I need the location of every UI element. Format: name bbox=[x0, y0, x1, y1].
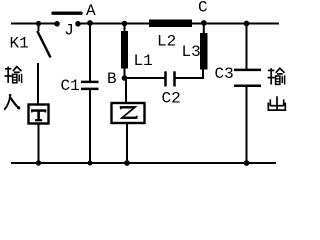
label shu (input) character 1 bbox=[5, 67, 22, 83]
junction Z branch at bottom rail bbox=[124, 160, 130, 166]
junction C3 branch top bbox=[244, 21, 250, 27]
label L3 bbox=[182, 43, 201, 61]
svg-text:L1: L1 bbox=[134, 52, 153, 70]
inductor L3 bbox=[200, 24, 208, 70]
wire node B to C2 bbox=[125, 77, 165, 79]
wire C2 to L3 bottom bbox=[176, 70, 204, 79]
capacitor C1 bbox=[81, 82, 99, 89]
svg-text:A: A bbox=[86, 2, 96, 20]
svg-text:C1: C1 bbox=[61, 77, 80, 95]
wire node A down to C1 bbox=[89, 24, 91, 82]
capacitor C2 bbox=[166, 71, 175, 86]
inductor L1 bbox=[121, 24, 128, 79]
wire C1 to bottom rail bbox=[89, 90, 91, 163]
svg-text:J: J bbox=[64, 21, 74, 39]
label ru (input) character 2 bbox=[4, 95, 20, 110]
wire K1 lower lead to fuse box bbox=[37, 63, 39, 104]
label C3 bbox=[215, 65, 234, 83]
svg-text:B: B bbox=[107, 70, 117, 88]
capacitor C3 bbox=[234, 70, 261, 86]
svg-text:C3: C3 bbox=[215, 65, 234, 83]
label node C bbox=[198, 0, 208, 16]
label L1 bbox=[134, 52, 153, 70]
node C junction dot bbox=[201, 20, 207, 26]
switch J left terminal dot bbox=[54, 21, 60, 27]
svg-text:L2: L2 bbox=[157, 33, 176, 51]
svg-text:K1: K1 bbox=[10, 35, 29, 53]
switch J right terminal dot bbox=[75, 21, 81, 27]
switch J contact bar bbox=[53, 11, 81, 14]
wire top rail left segment bbox=[11, 23, 56, 25]
inductor L2 bbox=[149, 20, 192, 28]
label L2 bbox=[157, 33, 176, 51]
svg-text:C2: C2 bbox=[162, 90, 181, 108]
label J bbox=[64, 21, 74, 39]
node A junction dot bbox=[87, 20, 93, 26]
wire C3 to bottom rail bbox=[246, 87, 248, 163]
label C2 bbox=[162, 90, 181, 108]
svg-text:L3: L3 bbox=[182, 43, 201, 61]
label C1 bbox=[61, 77, 80, 95]
label node A bbox=[86, 2, 96, 20]
wire Z box to bottom rail bbox=[126, 123, 128, 163]
wire top rail right segment A-to-right-end bbox=[78, 23, 279, 25]
wire bottom rail bbox=[11, 162, 276, 164]
fuse box T bbox=[29, 105, 49, 124]
label node B bbox=[107, 70, 117, 88]
junction C3 branch at bottom rail bbox=[244, 160, 250, 166]
wire node B down to Z box bbox=[125, 78, 127, 103]
node B junction dot bbox=[122, 75, 128, 81]
svg-text:C: C bbox=[198, 0, 208, 16]
arrester box Z bbox=[112, 103, 145, 123]
wire fuse box to bottom rail bbox=[38, 124, 40, 163]
switch K1 bbox=[36, 21, 51, 58]
junction fuse branch at bottom rail bbox=[36, 160, 41, 165]
label chu (output) character 2 bbox=[268, 96, 286, 110]
label shu (output) character 1 bbox=[268, 68, 285, 84]
wire C3 branch upper bbox=[246, 24, 248, 69]
label K1 bbox=[10, 35, 29, 53]
junction L1 top at rail bbox=[122, 21, 128, 27]
junction C1 branch at bottom rail bbox=[88, 161, 93, 166]
